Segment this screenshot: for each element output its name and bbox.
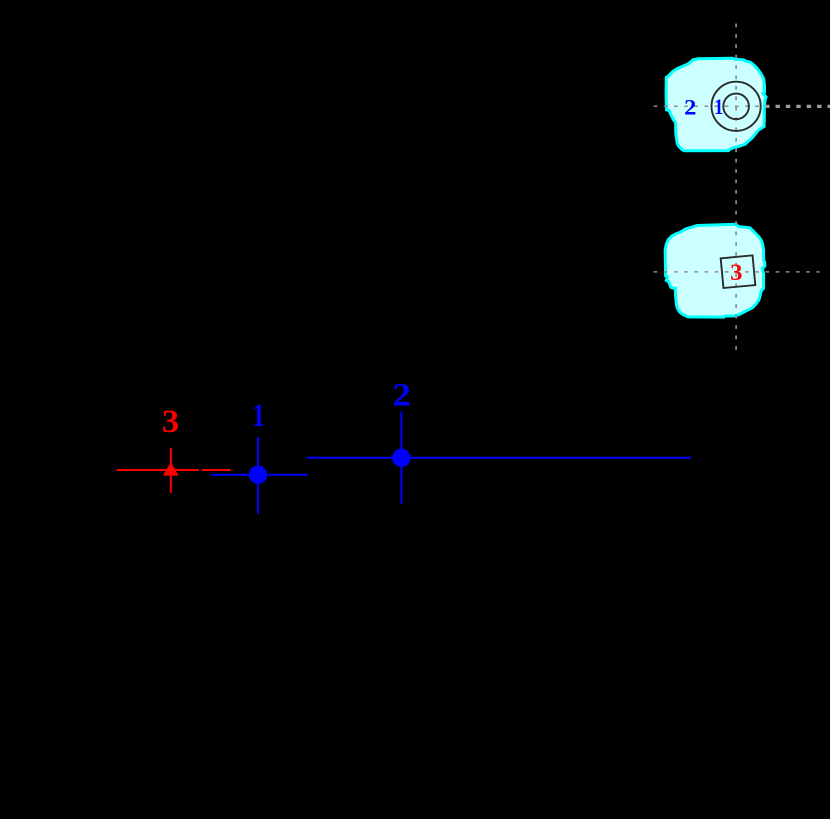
- marker 3 square (rotated): [721, 255, 756, 288]
- point 1 vertical error bar (blue): [257, 437, 259, 514]
- svg-text:3: 3: [730, 260, 743, 286]
- crosshair vertical dashed line (both stamps): [735, 24, 737, 357]
- svg-text:2: 2: [684, 95, 696, 120]
- svg-text:3: 3: [162, 404, 179, 440]
- point 1 dot marker (blue): [249, 466, 267, 484]
- svg-text:1: 1: [714, 94, 723, 119]
- point 3 triangle marker (red): [163, 462, 179, 476]
- crosshair horizontal dashed line bottom stamp: [654, 271, 820, 273]
- marker 1 inner circle: [723, 94, 749, 120]
- stamp blob top (segmentation contour): [666, 58, 766, 150]
- point 2 dot marker (blue): [392, 449, 410, 467]
- stamp blob bottom (segmentation contour): [665, 224, 765, 317]
- point 2 horizontal error bar (blue): [307, 457, 691, 459]
- marker 1 outer circle: [712, 82, 761, 131]
- point 3 horizontal error bar (red): [117, 469, 199, 471]
- point 3 vertical error bar (red): [170, 448, 172, 493]
- svg-text:2: 2: [393, 378, 411, 414]
- point 1 horizontal error bar (blue): [211, 474, 307, 476]
- point 2 vertical error bar (blue): [400, 411, 402, 504]
- svg-text:1: 1: [252, 398, 265, 434]
- crosshair horizontal dashed line top stamp: [654, 105, 766, 107]
- crosshair horizontal thick dashes right of top stamp (doubled line): [765, 105, 830, 108]
